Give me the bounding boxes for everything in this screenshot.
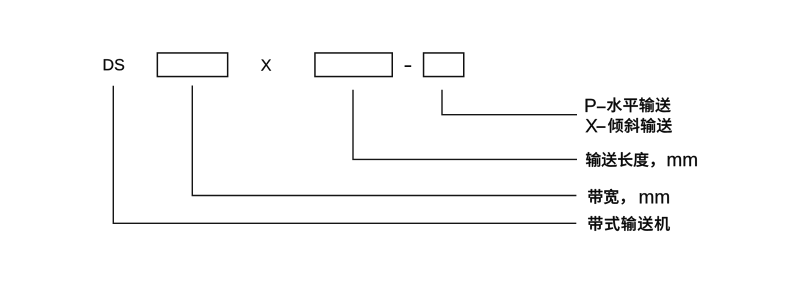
dash after X (597, 126, 606, 128)
leader wire from box 2 to length label (353, 90, 577, 160)
box 1 (belt width field) (157, 53, 227, 77)
label CJK qingxie-shusong (608, 118, 672, 133)
dash after P (597, 107, 606, 109)
box 3 (P/X type field) (424, 53, 464, 77)
label CJK daikuan (588, 189, 625, 205)
text X (header) (261, 60, 271, 71)
label CJK shusong-changdu (586, 152, 655, 167)
box 2 (conveyor length field) (315, 53, 392, 77)
leader wire from box 1 to width label (192, 86, 576, 196)
text DS (104, 59, 124, 70)
label mm (width) (640, 193, 669, 203)
label letter P (586, 99, 596, 112)
label CJK shuiping-shusong (607, 97, 671, 112)
label CJK daishi-shusongji (588, 216, 670, 231)
label mm (length) (668, 156, 697, 166)
dash between box 2 and box 3 (405, 65, 412, 67)
leader wire from DS to conveyor label (113, 86, 576, 224)
leader wire from box 3 to P/X label (442, 90, 577, 115)
label letter X (586, 119, 598, 132)
